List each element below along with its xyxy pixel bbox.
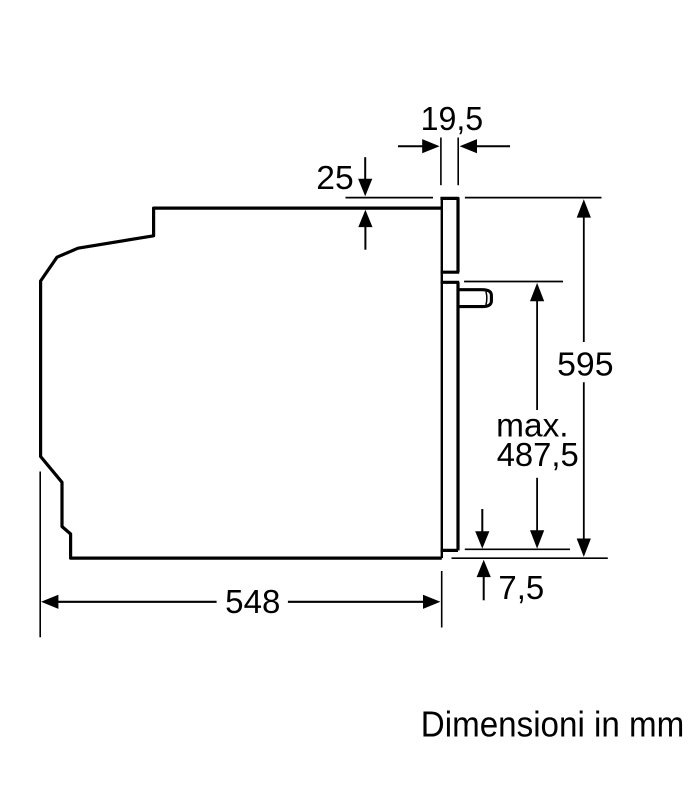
svg-text:19,5: 19,5 [421, 100, 484, 137]
svg-text:487,5: 487,5 [497, 436, 579, 473]
dimension max 487,5: shaft lower [536, 478, 538, 534]
extension line: 548 right [441, 571, 443, 628]
extension line: 19,5 right [457, 138, 459, 186]
oven door front panel [440, 198, 458, 272]
dimension 548: right shaft [288, 601, 426, 603]
dimension 548: right arrowhead [423, 595, 440, 609]
dimension 19,5: right arrowhead [460, 139, 477, 153]
svg-text:595: 595 [557, 345, 613, 382]
door bottom edge [441, 549, 458, 552]
dimension 25: up arrowhead [358, 210, 372, 227]
dimension 19,5: left arrowhead [422, 139, 439, 153]
dimension 19,5: right shaft [475, 145, 510, 147]
svg-text:Dimensioni in mm: Dimensioni in mm [421, 703, 685, 744]
dimension 595: shaft upper [583, 214, 585, 342]
dimension 595: shaft lower [583, 382, 585, 543]
ref line: door bottom extended right [465, 548, 570, 550]
dimension max 487,5: up arrowhead [530, 283, 544, 301]
ref line: door top extended right (595 top) [465, 197, 602, 199]
dimension 548: left shaft [55, 601, 217, 603]
door front lower [456, 282, 459, 550]
oven body outline [41, 208, 442, 558]
dimension 7,5: down arrowhead [475, 531, 489, 548]
ref line: body bottom extended right (595 bottom) [452, 557, 608, 559]
dimension 548: left arrowhead [41, 595, 58, 609]
dimension 595: down arrowhead [577, 539, 591, 557]
ref line: door top extended left (25 dim) [346, 197, 434, 199]
knob [458, 290, 491, 307]
oven front / door back line [441, 198, 443, 558]
dimension 25: down arrowhead [358, 179, 372, 196]
dimension 25: down arrow shaft [364, 157, 366, 182]
extension line: 19,5 left [440, 138, 442, 186]
dimension 7,5: up arrow shaft [483, 574, 485, 600]
extension line: 548 left [39, 472, 41, 638]
dimension 19,5: left shaft [398, 145, 425, 147]
svg-text:25: 25 [316, 159, 353, 196]
dimension 25: up arrow shaft [364, 224, 366, 250]
dimension 7,5: down arrow shaft [481, 509, 483, 534]
control panel bottom cap [441, 271, 460, 274]
ref line: door upper edge extended right (max top) [464, 281, 563, 283]
svg-text:7,5: 7,5 [498, 569, 544, 606]
dimension max 487,5: shaft upper [536, 298, 538, 410]
dimension max 487,5: down arrowhead [530, 530, 544, 548]
knob inner arc [485, 292, 488, 305]
dimension 7,5: up arrowhead [477, 560, 491, 577]
door top edge below panel [441, 281, 460, 284]
svg-text:548: 548 [225, 583, 280, 620]
dimension 595: up arrowhead [577, 199, 591, 217]
